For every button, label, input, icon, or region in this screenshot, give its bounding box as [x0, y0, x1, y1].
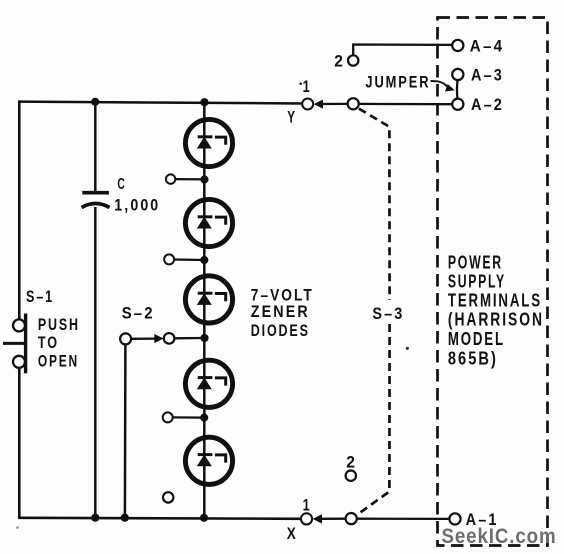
wire pole to A-2 [359, 103, 452, 106]
tap terminal 4 [163, 412, 209, 422]
svg-text:PUSH: PUSH [38, 315, 80, 334]
wire pole to A-1 [357, 518, 450, 521]
tap terminal 2 [164, 254, 208, 264]
terminal A-4 [452, 37, 504, 56]
svg-text:1: 1 [303, 496, 312, 515]
svg-text:2: 2 [334, 52, 345, 71]
switch S-2 [120, 304, 208, 518]
svg-text:2: 2 [346, 453, 357, 472]
svg-text:SUPPLY: SUPPLY [448, 272, 506, 292]
jumper wire between A-3 and A-2 [456, 80, 459, 98]
svg-text:MODEL: MODEL [448, 329, 505, 349]
S-3 pole circle (top) [348, 98, 359, 109]
svg-text:S–1: S–1 [26, 287, 54, 306]
terminal A-3 [452, 66, 504, 85]
top rail wire [19, 102, 302, 104]
left vertical wire (lower) [18, 368, 21, 520]
node Y terminal 1 [287, 77, 313, 127]
zener diode D2 [185, 199, 232, 246]
tap terminal 1 [166, 174, 209, 183]
svg-text:POWER: POWER [448, 252, 503, 272]
svg-text:S–2: S–2 [122, 304, 155, 323]
zener diode D4 [185, 360, 232, 407]
S-3 pole circle (bottom) [346, 513, 357, 524]
svg-text:OPEN: OPEN [38, 352, 79, 371]
junction bottom of capacitor branch [91, 514, 99, 522]
svg-text:TO: TO [38, 333, 59, 352]
junction top of capacitor branch [91, 98, 99, 106]
capacitor C 1,000 [82, 102, 161, 518]
wire 2 to A-4 [353, 45, 452, 56]
label JUMPER with leader arrow [365, 73, 454, 92]
tap terminal 5 (floating) [163, 492, 173, 502]
terminal 2 (bottom) [346, 453, 358, 481]
svg-text:SeekIC.com: SeekIC.com [442, 525, 557, 548]
wire arrow to S-3 pole (top) [322, 103, 348, 105]
svg-text:X: X [287, 524, 298, 543]
svg-text:DIODES: DIODES [251, 321, 310, 340]
zener chain vertical wire [203, 102, 206, 518]
wire arrow to S-3 pole (bottom) [321, 518, 346, 520]
svg-text:ZENER: ZENER [251, 302, 310, 321]
svg-text:A–2: A–2 [471, 95, 504, 114]
left vertical wire (upper) [18, 100, 21, 319]
arrow into Y [314, 100, 323, 109]
svg-text:A–4: A–4 [470, 37, 505, 56]
svg-text:C: C [117, 176, 126, 193]
terminal 2 (top) [334, 52, 358, 71]
label 7-VOLT ZENER DIODES [251, 286, 314, 341]
svg-text:Y: Y [287, 108, 297, 127]
zener diode D5 [185, 437, 232, 484]
terminal A-1 [449, 510, 498, 529]
svg-text:1,000: 1,000 [114, 196, 160, 215]
svg-text:S–3: S–3 [372, 304, 404, 323]
svg-text:JUMPER: JUMPER [365, 73, 430, 92]
svg-text:A–3: A–3 [471, 66, 504, 85]
svg-text:TERMINALS: TERMINALS [448, 291, 542, 311]
junction bottom of zener chain [200, 514, 208, 522]
zener diode D3 [185, 276, 232, 323]
S-3 dashed link [358, 109, 405, 515]
svg-text:1: 1 [303, 77, 312, 96]
svg-text:(HARRISON: (HARRISON [448, 310, 544, 330]
switch S-1 push to open [3, 287, 80, 374]
label POWER SUPPLY TERMINALS (HARRISON MODEL 865B) [448, 252, 544, 368]
terminal A-2 [452, 95, 504, 114]
junction bottom of S-2 branch [121, 514, 129, 522]
ink speck mid right [406, 347, 409, 350]
arrow into X [313, 514, 322, 523]
zener diode D1 [185, 119, 232, 166]
bottom rail wire [19, 518, 301, 519]
ink speck bottom left [16, 526, 19, 529]
svg-text:865B): 865B) [448, 349, 498, 369]
power supply dashed box [438, 18, 548, 546]
ink speck near Y label [299, 82, 302, 85]
node X terminal 1 [287, 496, 312, 543]
junction top of zener chain [200, 98, 208, 106]
